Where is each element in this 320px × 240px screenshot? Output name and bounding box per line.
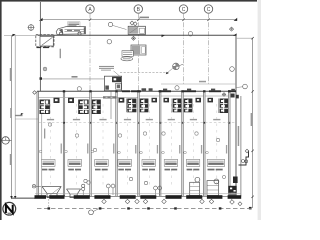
callout circle right wall 2 bbox=[243, 84, 248, 89]
top dim right tick bbox=[234, 18, 238, 21]
sheet background bbox=[0, 0, 261, 220]
unit dim texts bbox=[47, 119, 221, 120]
bottom wall thin line bbox=[35, 195, 241, 197]
trash enclosure inner pad bbox=[40, 36, 53, 46]
bottom wall thick segments bbox=[35, 195, 242, 199]
loading corridor wall bbox=[240, 96, 242, 197]
keynote circles at partition tops above label row bbox=[39, 150, 208, 154]
circle above hopper2 bbox=[84, 179, 87, 182]
keynote stack below B bbox=[121, 51, 133, 61]
unit number vertical smudge unit1 bbox=[44, 129, 45, 139]
leader to target circle bbox=[167, 68, 173, 73]
short dashed riser at left bbox=[48, 199, 50, 208]
top dimension line bbox=[41, 19, 236, 21]
equipment box below wall near B bbox=[131, 45, 146, 55]
sheet top border bbox=[0, 0, 257, 2]
restroom cluster unit8 bbox=[205, 96, 229, 113]
truck label box bbox=[68, 22, 81, 27]
door swing circle on unit wall u3 bbox=[115, 86, 119, 90]
restroom cluster unit3 bbox=[91, 97, 116, 114]
callout circle near top wall bbox=[108, 22, 112, 26]
north arrow bbox=[3, 202, 16, 215]
svg-text:C: C bbox=[207, 7, 211, 13]
diamond at top right wall bbox=[229, 27, 233, 31]
grid line B bbox=[137, 13, 139, 91]
callout circle at bottom left wall bbox=[32, 185, 41, 188]
building right wall bbox=[235, 35, 237, 196]
grid line C1 bbox=[183, 13, 185, 84]
warehouse dim left tick blob bbox=[40, 77, 43, 80]
warehouse dim line y79 bbox=[40, 78, 116, 80]
top wall left extension to margin bbox=[4, 35, 38, 37]
ACCESSIBLE RESTROOM TYP label bbox=[99, 66, 120, 76]
bollard diamonds row below wall bbox=[102, 199, 242, 206]
corridor diamond bbox=[245, 149, 249, 153]
leader from callout to RTU box bbox=[113, 25, 127, 29]
left margin small arrow near tie bbox=[21, 113, 24, 116]
left margin tie at y119 bbox=[15, 118, 38, 120]
corridor top dark block bbox=[236, 95, 239, 99]
circle pair fixture unit3 bbox=[106, 184, 115, 195]
sheet left border bbox=[0, 0, 2, 220]
box fixture unit7a bbox=[190, 177, 200, 195]
hopper fixture 1 bbox=[42, 187, 61, 198]
door swing circle on unit wall u2 bbox=[77, 87, 81, 91]
grid bubble C1 bbox=[179, 5, 187, 13]
vertical dim smudge near grid A bbox=[60, 49, 61, 59]
svg-text:1: 1 bbox=[5, 137, 7, 141]
corridor cluster bbox=[231, 94, 235, 98]
keynote circles above bottom fixtures bbox=[87, 177, 148, 184]
left margin rotated dim texts bbox=[10, 68, 11, 81]
diamond symbols above RTU bbox=[130, 21, 137, 40]
right margin ticks bbox=[251, 37, 253, 198]
callout circle right wall 1 bbox=[230, 67, 235, 72]
left margin bottom arrows bbox=[10, 196, 12, 199]
top dim left tick bbox=[39, 18, 43, 21]
circle on top wall bbox=[188, 32, 192, 36]
trash enclosure gate ticks bbox=[37, 47, 42, 48]
top dim text bbox=[140, 17, 150, 19]
keynote circle mid warehouse left bbox=[107, 40, 111, 44]
dashed utility line y72.4 bbox=[120, 71, 169, 73]
top wall right end dark tick bbox=[233, 33, 237, 35]
left margin dim line 1 bbox=[11, 36, 13, 199]
section marker circle bbox=[2, 137, 12, 144]
circle at bottom dashed line left bbox=[89, 209, 99, 215]
building left wall upper bbox=[39, 2, 41, 92]
corridor vertical text bbox=[238, 126, 240, 146]
unit row top wall thick segments bbox=[122, 90, 236, 92]
restroom cluster unit1 bbox=[38, 97, 63, 114]
partition junction blobs on top wall bbox=[63, 90, 231, 92]
unit label boxes bbox=[42, 160, 225, 171]
callout circle on left wall bbox=[43, 67, 47, 71]
truck silhouette bbox=[56, 27, 85, 36]
restroom cluster unit7 bbox=[183, 96, 203, 112]
sheet right edge shading bbox=[258, 0, 261, 220]
keynote circles in units bbox=[48, 123, 219, 152]
diamond on wall near unit8 bbox=[222, 93, 226, 97]
vertical dim smudges along partitions bbox=[61, 144, 228, 154]
trash enclosure ramp diagonal bbox=[42, 37, 53, 45]
hopper fixture 2 bbox=[67, 189, 81, 198]
left margin dim text above tie bbox=[16, 115, 23, 116]
room label text under accessible restroom bbox=[103, 96, 117, 98]
junction dots at canopy dashed line bbox=[63, 122, 230, 124]
trash enclosure dashed rect bbox=[36, 35, 54, 47]
warehouse dim text bbox=[72, 76, 78, 78]
ticks from wall to diamonds bbox=[104, 199, 232, 200]
restroom cluster unit6 bbox=[161, 96, 182, 112]
door tick on top wall bbox=[162, 35, 166, 38]
accessible restroom room bbox=[104, 76, 121, 119]
left margin bottom tie bbox=[12, 197, 36, 199]
dashed canopy line across units bbox=[38, 122, 236, 124]
right block storefront line y84 bbox=[161, 83, 236, 85]
dark block at right wall mid bbox=[233, 177, 238, 184]
leader to right wall circle2 bbox=[236, 86, 243, 89]
right margin dim line bbox=[252, 38, 254, 208]
top dim grid ticks bbox=[89, 18, 210, 21]
restroom blocks above wall (right section) bbox=[142, 88, 235, 91]
grid line A bbox=[89, 13, 91, 91]
restroom cluster unit4 bbox=[117, 97, 138, 112]
building top wall bbox=[38, 34, 236, 36]
left margin dim line 2 bbox=[14, 36, 16, 199]
storefront line above bottom wall bbox=[35, 193, 241, 195]
warehouse dim tick right bbox=[115, 78, 117, 80]
right margin rotated dim text bbox=[251, 113, 252, 126]
box fixture unit7b bbox=[207, 175, 226, 195]
circle pair fixture unit5 bbox=[154, 186, 162, 195]
grid line C2 bbox=[208, 13, 210, 84]
RTU box above wall at grid B bbox=[128, 26, 145, 34]
circle pair fixture unit2 bbox=[82, 184, 85, 195]
right margin bottom tick blob bbox=[249, 207, 252, 210]
door swing circle on unit wall u6 bbox=[175, 86, 179, 90]
canopy dashed line bottom bbox=[37, 207, 252, 209]
grid bubble C2 bbox=[204, 5, 212, 13]
restroom cluster unit2 bbox=[65, 97, 90, 114]
target circle symbol bbox=[173, 63, 184, 70]
grid bubble A bbox=[86, 5, 94, 13]
door symbol at left end of unit wall bbox=[33, 91, 37, 95]
corridor circles bbox=[242, 160, 245, 163]
blobs on dashed line bbox=[48, 207, 222, 209]
callout circle top-left with cross bbox=[28, 24, 35, 31]
svg-text:C: C bbox=[182, 7, 186, 13]
unit row top wall bbox=[37, 90, 236, 92]
right dim extension line bbox=[236, 37, 253, 39]
corridor jog symbol bbox=[239, 151, 249, 166]
grid bubble B bbox=[134, 5, 142, 13]
left extension arrow bbox=[12, 34, 16, 37]
unit partition walls bbox=[37, 91, 230, 196]
unit centerline dashes bbox=[51, 104, 217, 186]
restroom cluster unit5 bbox=[139, 96, 159, 112]
